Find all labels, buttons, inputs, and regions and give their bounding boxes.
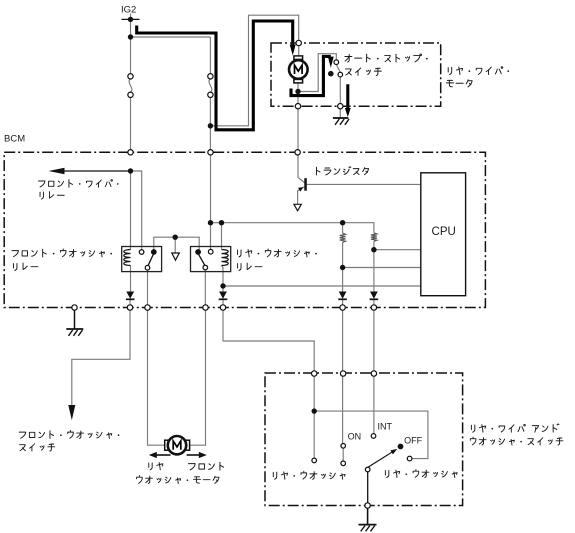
front wiper relay arrow <box>49 168 65 174</box>
label front washer switch <box>19 432 26 438</box>
wire BCM left ground <box>74 310 76 329</box>
wire rear washer relay output down <box>204 270 206 308</box>
label rear direction <box>144 463 154 467</box>
svg-text:BCM: BCM <box>4 134 25 145</box>
label transistor <box>312 167 322 175</box>
wire front washer relay output <box>148 270 165 445</box>
wire thick arrow into motor <box>290 45 296 56</box>
node IG2 feed wire <box>130 14 132 153</box>
wire IG2 horizontal branch <box>131 36 211 38</box>
svg-text:IG2: IG2 <box>121 5 136 16</box>
resistor R2 <box>371 233 377 242</box>
wire resistor supply rail <box>211 223 374 233</box>
wire feed to rear wiper motor <box>210 15 298 126</box>
wire transistor emitter <box>298 187 305 204</box>
connector squiggle on IG2 wire <box>129 79 132 92</box>
wire resistor R2 tap to CPU <box>374 249 421 251</box>
rear wiper washer switch contacts <box>312 434 412 472</box>
wire diode to BCM edge <box>222 300 224 308</box>
wire front washer relay coil to diode <box>129 266 132 308</box>
wire resistor R1 to diode and switch <box>342 242 344 443</box>
wire thick ground arrow <box>346 84 349 108</box>
svg-text:ON: ON <box>348 432 362 442</box>
rear washer relay K2 <box>191 247 231 272</box>
wire front wiper relay branch <box>64 170 131 172</box>
wire thick highlight IG2 to motor <box>137 21 293 130</box>
junction dots <box>128 17 133 22</box>
connectors switch box <box>312 371 317 376</box>
rear wiper motor M1 <box>289 56 308 83</box>
rear wiper and washer switch box <box>265 373 463 506</box>
wire rear washer relay coil to diode <box>222 266 224 292</box>
wire rail to rear washer relay coil <box>221 223 223 249</box>
connectors BCM top edge <box>128 150 133 155</box>
wire motor to transistor <box>298 83 305 183</box>
svg-text:CPU: CPU <box>432 226 456 238</box>
washer motor direction arrow front <box>187 454 200 456</box>
label rear washer right <box>380 471 390 475</box>
washer motor direction arrow rear <box>156 454 171 456</box>
ground (rear wiper motor) <box>333 117 349 119</box>
svg-text:OFF: OFF <box>404 435 422 445</box>
wire to front washer relay coil <box>130 171 132 250</box>
CPU box U1 <box>421 173 466 296</box>
wire vertical feed to BCM <box>209 37 211 152</box>
internal open arrow <box>172 253 180 260</box>
front washer relay K1 <box>122 247 162 272</box>
svg-text:INT: INT <box>378 422 393 432</box>
wire IG2 tick <box>122 18 140 20</box>
resistor R1 <box>340 233 346 242</box>
wire transistor base to CPU <box>307 183 421 185</box>
label rear wiper and washer switch <box>466 425 476 429</box>
wire switch common to OFF contact <box>314 411 428 459</box>
label rear washer left <box>268 472 278 476</box>
wire rear washer relay output to washer motor <box>190 308 206 446</box>
label front washer relay <box>12 251 19 257</box>
label rear wiper motor <box>443 68 453 72</box>
wire relay common link <box>154 237 199 254</box>
rear wiper motor box <box>271 43 441 106</box>
front washer switch arrow <box>68 405 75 420</box>
ground (BCM left) <box>66 328 83 330</box>
connector squiggle on feed wire <box>209 79 212 92</box>
wire resistor R2 to diode and switch <box>373 241 375 433</box>
diode D4 <box>370 292 378 299</box>
label washer motor <box>134 476 144 477</box>
label front direction <box>189 464 196 470</box>
diode D2 <box>219 292 227 299</box>
wire to front washer relay contact <box>131 171 142 250</box>
wire auto-stop switch to ground <box>339 77 341 118</box>
wire feed to rear washer relay contact <box>210 152 212 249</box>
wire coil sense to CPU <box>223 285 421 287</box>
auto-stop switch <box>328 60 343 77</box>
connectors on wires <box>128 74 133 79</box>
diode D1 <box>126 292 134 299</box>
wire rail to resistor R1 <box>342 223 344 234</box>
wire thick arrow to auto-stop contact <box>328 57 334 68</box>
wire motor to auto-stop switch <box>298 54 336 92</box>
diode D3 <box>339 292 347 299</box>
label auto-stop switch <box>345 52 352 62</box>
BCM box <box>4 152 485 307</box>
wire switch blade to ground <box>367 472 369 503</box>
connectors rear wiper motor box <box>296 40 301 45</box>
wire link to internal arrow <box>174 237 176 253</box>
transistor Q1 <box>294 178 307 211</box>
ground (switch box) <box>359 524 377 526</box>
wire rear washer feed to switch box <box>223 308 314 409</box>
wire ON contact pair <box>342 448 344 461</box>
washer motor M2 <box>165 436 190 454</box>
connectors BCM bottom edge <box>72 305 77 310</box>
label rear washer relay <box>233 250 243 254</box>
wire resistor R1 tap to CPU <box>343 267 421 269</box>
label front wiper relay <box>39 181 45 187</box>
wire thick highlight motor to auto-stop <box>291 56 331 95</box>
wire switch common to washer contact <box>313 411 315 458</box>
wire front washer switch drop <box>72 308 130 407</box>
